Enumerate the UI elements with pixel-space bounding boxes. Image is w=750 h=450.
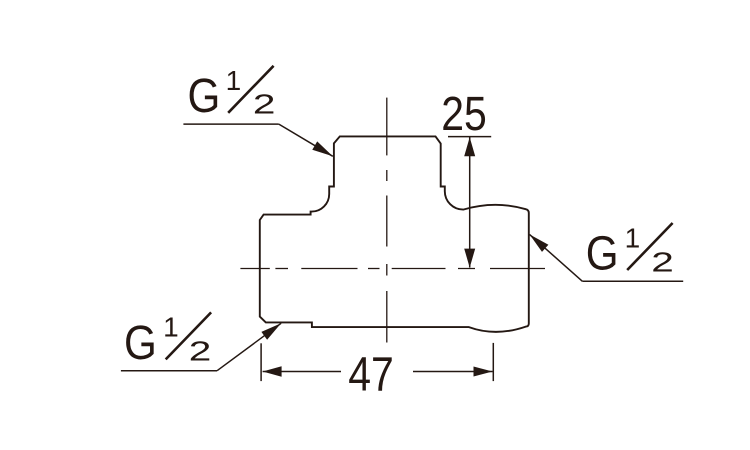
tee fitting body outline (260, 136, 529, 331)
dimension 47 right arrowhead (474, 367, 493, 377)
leader underline (right) (582, 280, 683, 282)
fraction slash (bottom-left) (166, 312, 211, 359)
svg-text:G: G (586, 226, 619, 280)
fraction slash (top-left) (228, 66, 273, 113)
dimension 25 upper arrowhead (464, 137, 475, 156)
leader diagonal (right) (530, 234, 583, 281)
label G1/2 bottom-left (121, 312, 281, 371)
leader diagonal (top-left) (279, 124, 333, 156)
svg-text:1: 1 (625, 222, 641, 253)
dimension 25 lower arrowhead (464, 249, 475, 268)
leader arrowhead (bottom-left) (261, 323, 281, 339)
dimension 25 line (469, 137, 471, 268)
dimension 47 left extension line (260, 343, 262, 381)
svg-text:2: 2 (253, 89, 276, 120)
leader arrowhead (right) (530, 234, 549, 252)
svg-text:1: 1 (163, 312, 179, 343)
svg-text:G: G (124, 315, 157, 369)
fraction slash (right) (627, 223, 672, 270)
svg-text:2: 2 (651, 247, 674, 278)
horizontal centerline (240, 268, 545, 270)
leader diagonal (bottom-left) (217, 323, 281, 370)
dimension 47 line left segment (263, 371, 341, 373)
leader underline (bottom-left) (121, 370, 217, 372)
svg-text:1: 1 (226, 65, 242, 96)
svg-text:25: 25 (441, 86, 487, 141)
dimension 25 extension line (448, 136, 491, 138)
svg-text:2: 2 (189, 336, 212, 367)
dimension 47 line right segment (413, 371, 493, 373)
svg-text:G: G (187, 68, 220, 122)
leader arrowhead (top-left) (312, 141, 333, 156)
leader underline (top-left) (183, 123, 278, 125)
dimension 47 left arrowhead (263, 366, 282, 376)
label G1/2 top-left (183, 65, 332, 156)
svg-text:47: 47 (348, 346, 394, 401)
vertical centerline (386, 98, 388, 343)
label G1/2 right (530, 222, 684, 281)
dimension 47 right extension line (492, 343, 494, 381)
